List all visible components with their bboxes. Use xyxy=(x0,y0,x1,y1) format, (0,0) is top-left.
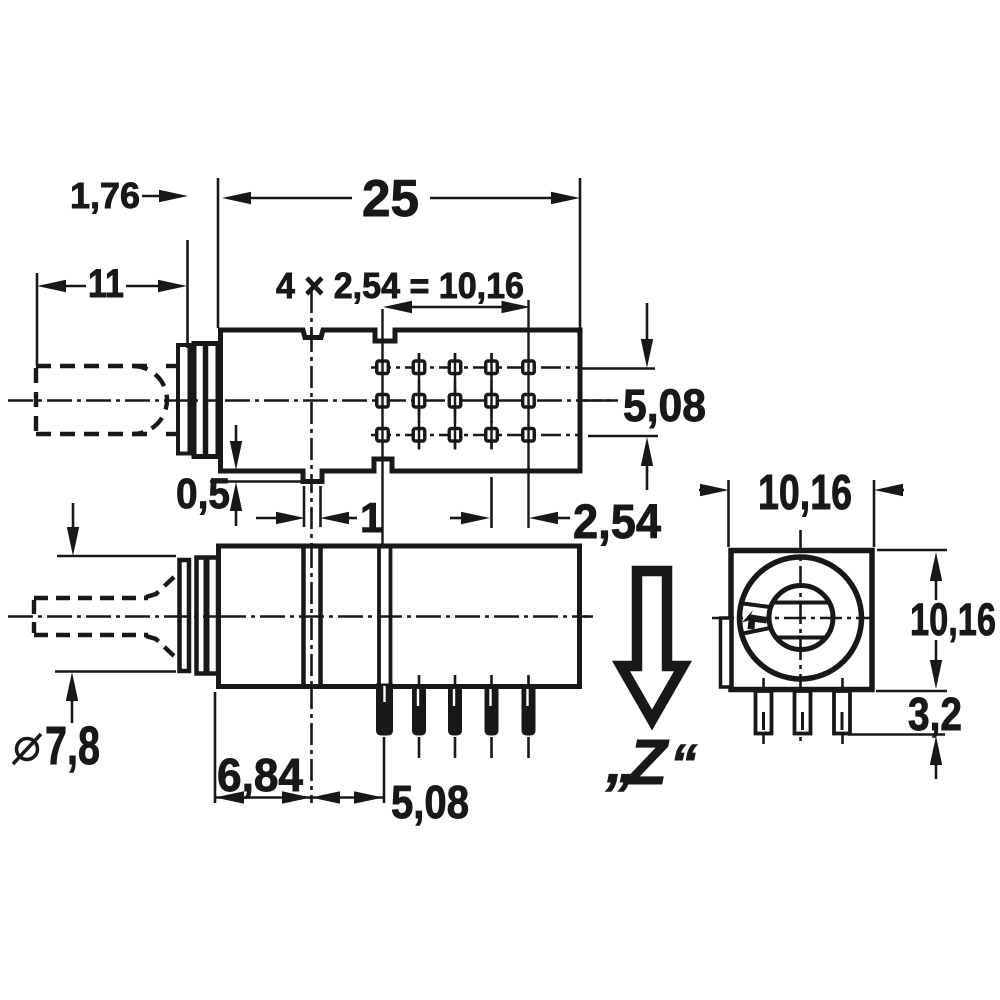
centerline lower view xyxy=(8,615,593,618)
dimension diameter 7,8 xyxy=(57,555,176,558)
pin stub lines inside body xyxy=(418,675,421,687)
pin centerlines below xyxy=(383,737,386,803)
arrowheads 10,16 top xyxy=(700,484,729,496)
pin square vertical lines cols 2-4 xyxy=(419,353,492,450)
arrowheads 5,08 bottom xyxy=(311,791,340,803)
dimension 11 xyxy=(62,285,86,288)
svg-text:5,08: 5,08 xyxy=(623,380,706,431)
svg-text:“: “ xyxy=(670,734,697,794)
rib centerline vertical xyxy=(310,291,313,803)
right view centerline horizontal xyxy=(712,617,871,620)
collar rings top view xyxy=(178,345,190,454)
right view left tab xyxy=(721,618,732,687)
arrowheads 5,08 right xyxy=(641,339,653,368)
body outline lower view xyxy=(219,546,580,687)
svg-text:5,08: 5,08 xyxy=(391,776,469,828)
rib centerline inside lower body xyxy=(310,546,313,687)
pin column 4 extension below body xyxy=(490,477,493,528)
arrowhead 1,76 xyxy=(159,190,188,202)
pin 3 lower view xyxy=(449,687,462,735)
svg-text:2,54: 2,54 xyxy=(573,496,661,549)
arrow Z outline xyxy=(621,571,683,720)
svg-text:Z: Z xyxy=(626,726,670,798)
arrowheads 1 xyxy=(276,512,305,524)
svg-text:10,16: 10,16 xyxy=(758,466,852,520)
dimension 4x2,54 line xyxy=(408,306,506,309)
dimension 5,08 right top xyxy=(646,303,649,344)
diameter symbol xyxy=(13,734,41,764)
dimension 10,16 right xyxy=(877,549,947,552)
pin 4 lower view xyxy=(485,687,498,735)
svg-text:6,84: 6,84 xyxy=(217,749,303,801)
arrowheads 10,16 right xyxy=(930,552,942,581)
arrowheads 11 xyxy=(37,280,66,292)
dimension 6,84 and 5,08 bottom xyxy=(214,692,217,803)
pin contact squares grid 5x3 xyxy=(377,361,535,441)
arrowheads diameter 7,8 xyxy=(67,527,79,556)
svg-text:7,8: 7,8 xyxy=(45,716,100,776)
arrowheads 25 xyxy=(222,192,251,204)
right view centerline vertical xyxy=(799,530,802,745)
dimension 3,2 xyxy=(848,733,945,736)
svg-text:1: 1 xyxy=(360,494,383,541)
pin 2 lower view xyxy=(413,687,426,735)
arrowheads xyxy=(37,190,942,804)
arrowheads 2,54 xyxy=(461,512,490,524)
centerline lower view inside body xyxy=(221,615,593,618)
svg-text:1,76: 1,76 xyxy=(70,175,140,216)
dimension 1 xyxy=(303,486,306,527)
right view pins xyxy=(756,691,772,734)
pin row centerline 1 xyxy=(371,366,580,369)
svg-text:0,5: 0,5 xyxy=(176,470,230,518)
rib centerline inside top body xyxy=(310,330,313,484)
right view slot chords xyxy=(771,601,831,605)
plug dashed outline top view xyxy=(36,366,177,434)
body outline top view xyxy=(221,330,581,482)
pin column line 5 (extension) xyxy=(527,300,529,528)
centerline top view xyxy=(8,399,618,402)
dimension 2,54 xyxy=(450,517,466,520)
plug dashed outline lower view xyxy=(34,577,174,656)
right view inner circle xyxy=(769,586,833,650)
pin row centerline 3 xyxy=(371,434,580,437)
right view outer circle xyxy=(740,557,862,679)
arrowhead 3,2 xyxy=(930,736,942,765)
svg-text:11: 11 xyxy=(88,262,124,306)
rib lines lower view xyxy=(301,547,306,685)
pin 5 lower view xyxy=(522,687,535,735)
pin 1 lower view xyxy=(377,684,393,735)
digit 1 marker xyxy=(742,610,767,630)
arrowheads 4x2,54 xyxy=(383,301,412,313)
pin1 slot lines lower view xyxy=(377,547,381,685)
svg-text:10,16: 10,16 xyxy=(910,594,996,645)
dimension 0,5 xyxy=(210,480,301,483)
right view wedge lines xyxy=(743,604,770,608)
right view box xyxy=(731,551,872,690)
pin column centerlines xyxy=(418,353,421,449)
dimension 25 xyxy=(249,197,352,200)
pin row centerline 2 xyxy=(225,399,612,402)
svg-text:3,2: 3,2 xyxy=(908,688,962,740)
collar rings lower view xyxy=(180,560,190,671)
dimension 1,76 xyxy=(142,195,165,198)
svg-text:4 × 2,54 = 10,16: 4 × 2,54 = 10,16 xyxy=(276,265,524,306)
pin column line 1 (extension) xyxy=(381,309,383,545)
pin slits xyxy=(385,686,528,706)
arrowheads 6,84 xyxy=(215,791,244,803)
dimension 10,16 top xyxy=(727,480,730,547)
svg-text:25: 25 xyxy=(362,170,419,228)
arrowheads 0,5 xyxy=(230,441,242,470)
